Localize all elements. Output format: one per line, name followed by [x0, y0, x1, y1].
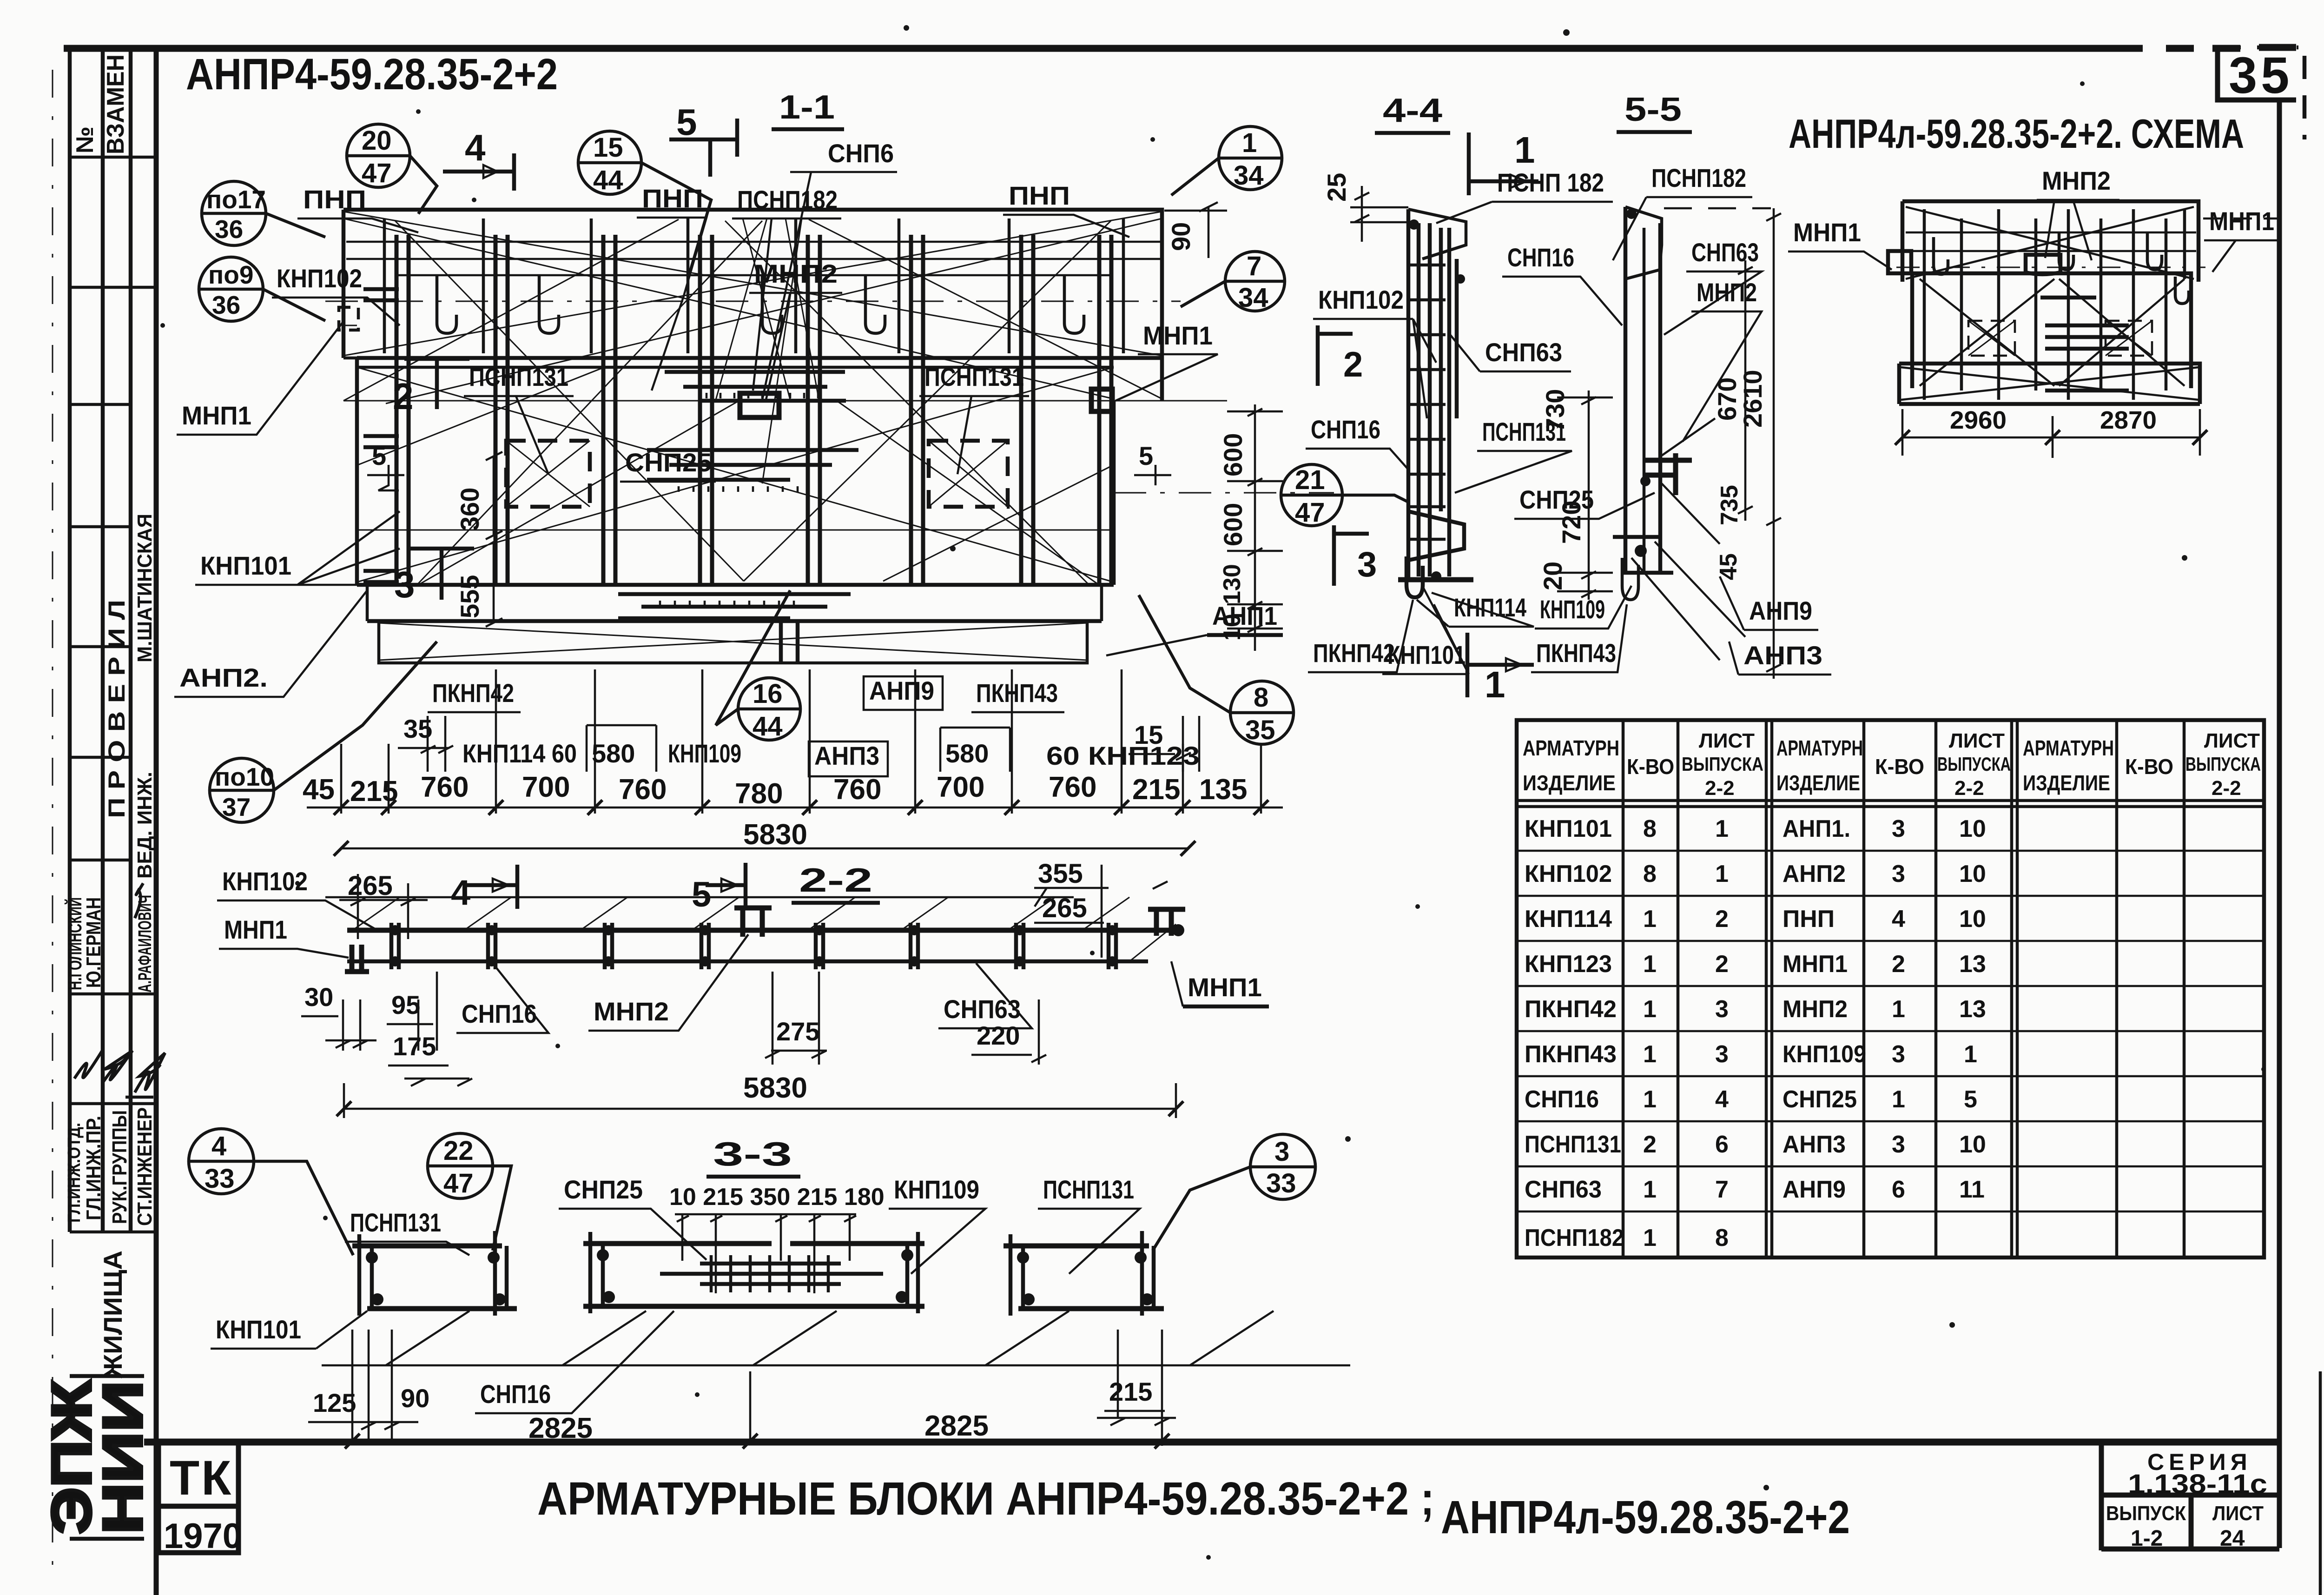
svg-text:3-3: 3-3	[713, 1136, 792, 1173]
3-3 right frame	[1004, 1231, 1164, 1316]
svg-text:П Р О В Е Р И Л: П Р О В Е Р И Л	[104, 600, 130, 818]
section mark 5 top	[669, 119, 737, 177]
svg-text:ИЗДЕЛИЕ: ИЗДЕЛИЕ	[1523, 771, 1616, 795]
svg-text:2: 2	[1892, 951, 1905, 978]
svg-text:1: 1	[1643, 906, 1657, 933]
3-3 mid frame	[583, 1232, 924, 1313]
svg-text:3: 3	[1274, 1137, 1289, 1167]
svg-text:СНП25: СНП25	[1783, 1086, 1857, 1113]
svg-text:ПНП: ПНП	[1009, 181, 1070, 210]
table data column2 qty	[1892, 815, 1905, 1203]
svg-text:2-2: 2-2	[799, 862, 872, 899]
svg-text:ПСНП182: ПСНП182	[1651, 163, 1746, 192]
svg-text:760: 760	[619, 774, 667, 806]
svg-text:А.РАФАИЛОВИЧ: А.РАФАИЛОВИЧ	[135, 895, 155, 993]
svg-text:СНП63: СНП63	[1691, 238, 1759, 267]
svg-text:3: 3	[1357, 545, 1377, 584]
svg-text:20: 20	[1538, 562, 1567, 590]
schema MNP1 plate left	[1888, 251, 1911, 273]
MNP1 end bars left at 2-2	[345, 945, 369, 972]
svg-text:АНП3: АНП3	[1783, 1131, 1846, 1158]
svg-text:КНП102: КНП102	[222, 867, 308, 896]
svg-text:2825: 2825	[924, 1410, 989, 1442]
title block left strip verticals	[70, 48, 131, 1232]
leader circle 3/33	[1153, 1134, 1315, 1251]
svg-text:МНП2: МНП2	[754, 259, 838, 288]
svg-text:МНП1: МНП1	[2209, 206, 2274, 236]
section 5-5 column	[1613, 207, 1745, 660]
svg-text:ЖИЛИЩА: ЖИЛИЩА	[98, 1251, 127, 1379]
PSNP131 dashed opening right	[929, 441, 1008, 507]
signature squiggle 1	[135, 883, 143, 918]
schema top band	[1902, 201, 2199, 282]
svg-text:АРМАТУРНЫЕ БЛОКИ АНПР4-59.28.3: АРМАТУРНЫЕ БЛОКИ АНПР4-59.28.35-2+2 ;	[537, 1473, 1434, 1525]
svg-text:11: 11	[1959, 1176, 1985, 1203]
leader circle 20/47	[347, 124, 437, 214]
svg-text:4: 4	[465, 127, 486, 168]
section 4-4 column	[1398, 209, 1473, 597]
table data column2 names	[1783, 815, 1866, 1203]
svg-text:АНП1.: АНП1.	[1783, 815, 1850, 842]
svg-text:580: 580	[945, 739, 989, 768]
svg-text:ТК: ТК	[170, 1451, 233, 1505]
svg-text:36: 36	[215, 215, 243, 244]
svg-text:КНП109: КНП109	[1540, 595, 1605, 624]
svg-text:10: 10	[1959, 906, 1986, 933]
svg-text:5: 5	[676, 101, 697, 143]
svg-text:ПНП: ПНП	[303, 185, 366, 214]
svg-text:ПНП: ПНП	[1783, 906, 1835, 933]
svg-text:1: 1	[1964, 1041, 1977, 1068]
svg-text:1: 1	[1242, 128, 1257, 158]
svg-text:1-1: 1-1	[779, 89, 835, 126]
svg-text:1: 1	[1643, 996, 1657, 1023]
MNP1 end clip right at 2-2	[1148, 909, 1185, 936]
svg-text:21: 21	[1295, 465, 1325, 495]
leader circle 7/34	[1181, 251, 1285, 311]
svg-text:135: 135	[1199, 774, 1247, 806]
svg-text:37: 37	[222, 793, 251, 821]
svg-text:35: 35	[2229, 47, 2293, 104]
svg-text:670: 670	[1712, 377, 1742, 421]
svg-text:175: 175	[393, 1032, 436, 1061]
MNP2 plate plan	[740, 393, 779, 417]
svg-text:8: 8	[1643, 860, 1657, 887]
svg-text:33: 33	[1266, 1168, 1296, 1198]
svg-text:СНП16: СНП16	[480, 1379, 551, 1409]
svg-text:КНП102: КНП102	[1318, 285, 1404, 314]
svg-text:СНП63: СНП63	[944, 994, 1021, 1024]
svg-text:МНП1: МНП1	[1793, 218, 1861, 247]
svg-text:3: 3	[1715, 1041, 1729, 1068]
svg-text:90: 90	[401, 1383, 429, 1413]
svg-text:34: 34	[1238, 283, 1268, 313]
svg-text:СНП25: СНП25	[625, 448, 712, 477]
svg-text:24: 24	[2220, 1526, 2245, 1551]
leader circle 1/34	[1171, 126, 1282, 195]
svg-text:47: 47	[1295, 497, 1325, 528]
svg-text:3: 3	[1892, 860, 1905, 887]
TK box	[158, 1443, 238, 1553]
svg-text:25: 25	[1322, 173, 1351, 202]
PSNP131 dashed opening left	[506, 441, 590, 507]
sheet bottom border	[144, 1439, 2279, 1446]
svg-text:ПКНП42: ПКНП42	[1525, 996, 1617, 1023]
svg-text:ЛИСТ: ЛИСТ	[2204, 729, 2260, 752]
svg-text:34: 34	[1234, 160, 1264, 191]
svg-text:215: 215	[1109, 1377, 1152, 1406]
svg-text:2610: 2610	[1738, 370, 1767, 428]
svg-text:4: 4	[1715, 1086, 1729, 1113]
svg-text:МНП2: МНП2	[594, 997, 669, 1026]
svg-text:КНП109: КНП109	[1783, 1041, 1866, 1068]
svg-text:4-4: 4-4	[1383, 92, 1442, 129]
svg-text:по9: по9	[208, 260, 253, 289]
svg-text:ПСНП182: ПСНП182	[1525, 1224, 1624, 1251]
svg-text:44: 44	[753, 711, 783, 741]
svg-text:600: 600	[1218, 433, 1248, 477]
svg-text:КНП109: КНП109	[894, 1175, 979, 1204]
svg-text:5: 5	[372, 441, 386, 470]
plan top band inner lines	[346, 242, 1162, 275]
svg-text:90: 90	[1166, 222, 1195, 251]
leader circle 21/47	[1281, 464, 1408, 526]
small tee center bottom	[781, 621, 798, 663]
2-2 stirrup dots	[390, 925, 1117, 966]
svg-text:1: 1	[1643, 1086, 1657, 1113]
svg-text:1: 1	[1892, 1086, 1905, 1113]
svg-text:МНП2: МНП2	[1783, 996, 1848, 1023]
svg-text:ПСНП131: ПСНП131	[1043, 1175, 1134, 1204]
svg-text:45: 45	[303, 774, 335, 806]
band leader crisscross	[716, 218, 818, 483]
svg-text:МНП2: МНП2	[2042, 166, 2111, 195]
svg-text:СНП63: СНП63	[1485, 338, 1562, 367]
svg-text:ПКНП42: ПКНП42	[1313, 638, 1395, 668]
svg-text:ИЗДЕЛИЕ: ИЗДЕЛИЕ	[1776, 771, 1860, 795]
leader circle po9/36	[199, 257, 325, 321]
leader circle 22/47	[428, 1133, 511, 1251]
mesh cluster mid dots	[679, 486, 798, 492]
under-plan extension lines	[341, 669, 1261, 814]
svg-text:К-ВО: К-ВО	[2125, 754, 2173, 779]
svg-text:2-2: 2-2	[1954, 777, 1984, 800]
svg-text:13: 13	[1959, 951, 1986, 978]
schema body	[1912, 273, 2191, 388]
signature squiggle 2	[74, 1051, 132, 1083]
svg-text:1: 1	[1643, 1041, 1657, 1068]
svg-text:125: 125	[313, 1388, 356, 1417]
svg-text:760: 760	[421, 771, 469, 803]
svg-text:1970: 1970	[164, 1516, 242, 1556]
svg-text:220: 220	[977, 1021, 1020, 1050]
plan skirt	[367, 585, 1102, 663]
2-2 hatched band top line	[325, 896, 1074, 899]
svg-text:215: 215	[350, 775, 398, 807]
opening crosses	[506, 441, 1008, 507]
MNP2 center clip at 2-2	[734, 908, 772, 937]
svg-text:АНП2.: АНП2.	[179, 663, 268, 692]
table verticals	[1623, 720, 2184, 1257]
svg-text:8: 8	[1254, 682, 1268, 713]
3-3 left frame	[352, 1231, 517, 1316]
svg-text:1: 1	[1643, 951, 1657, 978]
svg-text:5830: 5830	[743, 819, 807, 851]
signature squiggle 3	[125, 1053, 165, 1097]
svg-text:КНП101: КНП101	[200, 551, 291, 580]
table data column1 qty	[1643, 815, 1657, 1251]
svg-text:ПСНП 182: ПСНП 182	[1497, 168, 1604, 197]
2-2 stirrup clips	[391, 923, 1116, 969]
title block left strip row lines	[70, 157, 156, 1232]
2-2 panel heavy lines	[347, 928, 1176, 933]
svg-text:47: 47	[443, 1168, 474, 1198]
plan top band dash axis	[325, 301, 1181, 302]
svg-text:355: 355	[1038, 859, 1083, 889]
schema hooks	[1934, 232, 2189, 304]
extra band bar strokes	[384, 218, 1123, 353]
svg-text:1.138-11с: 1.138-11с	[2128, 1469, 2267, 1499]
svg-text:4: 4	[1892, 906, 1905, 933]
dim 2610 at 5-5	[1664, 207, 1771, 210]
svg-text:СНП63: СНП63	[1525, 1176, 1602, 1203]
table data column2 list	[1959, 815, 1986, 1203]
mesh cluster bottom dots	[660, 601, 794, 606]
svg-text:555: 555	[455, 575, 484, 618]
svg-text:3: 3	[1892, 1131, 1905, 1158]
mesh cluster top	[665, 372, 846, 401]
svg-text:1: 1	[1514, 129, 1535, 171]
svg-text:4: 4	[451, 873, 470, 913]
svg-text:1: 1	[1643, 1224, 1657, 1251]
svg-text:ВЫПУСКА: ВЫПУСКА	[1937, 753, 2011, 775]
svg-text:730: 730	[1540, 389, 1570, 432]
dim chain line under plan	[307, 807, 1283, 809]
svg-text:360: 360	[455, 488, 484, 531]
leader circle 4/33	[189, 1129, 353, 1255]
plan long thin lines	[343, 325, 1227, 530]
2-2 hatch diagonals	[353, 897, 1176, 961]
svg-text:К-ВО: К-ВО	[1627, 754, 1674, 779]
svg-text:МНП1: МНП1	[1188, 973, 1262, 1002]
svg-text:ЛИСТ: ЛИСТ	[1949, 729, 2005, 752]
svg-text:15: 15	[593, 132, 623, 163]
svg-text:22: 22	[443, 1136, 474, 1166]
plan top band rect	[343, 210, 1162, 401]
svg-text:ВЗАМЕН: ВЗАМЕН	[102, 54, 129, 154]
dash axis right	[1114, 492, 1334, 494]
svg-text:КНП101: КНП101	[1525, 815, 1612, 842]
svg-text:60 КНП123: 60 КНП123	[1046, 741, 1200, 770]
svg-text:760: 760	[833, 774, 881, 806]
svg-text:КНП114 60: КНП114 60	[462, 739, 577, 768]
svg-text:2: 2	[1715, 951, 1729, 978]
svg-text:2: 2	[1343, 345, 1363, 384]
svg-text:АРМАТУРН: АРМАТУРН	[1776, 736, 1863, 760]
svg-text:10: 10	[1959, 860, 1986, 887]
svg-text:ВЫПУСКА: ВЫПУСКА	[2185, 753, 2261, 775]
svg-text:2: 2	[1715, 906, 1729, 933]
svg-text:7: 7	[1715, 1176, 1729, 1203]
svg-text:580: 580	[592, 739, 635, 768]
svg-text:ЛИСТ: ЛИСТ	[2212, 1502, 2264, 1525]
svg-text:6: 6	[1715, 1131, 1729, 1158]
parts table frame	[1517, 720, 2264, 1257]
scan edge artifact right	[2320, 0, 2324, 1595]
svg-text:45: 45	[1715, 553, 1742, 580]
svg-text:7: 7	[1247, 251, 1261, 281]
svg-text:КНП102: КНП102	[277, 264, 362, 293]
svg-text:АНП9: АНП9	[1783, 1176, 1846, 1203]
svg-text:5: 5	[692, 875, 711, 914]
svg-text:2825: 2825	[528, 1412, 593, 1444]
schema skirt	[1899, 364, 2200, 404]
svg-text:13: 13	[1959, 996, 1986, 1023]
svg-text:700: 700	[937, 771, 984, 803]
svg-text:2960: 2960	[1950, 406, 2007, 434]
svg-text:АРМАТУРН: АРМАТУРН	[2023, 736, 2114, 760]
svg-text:АРМАТУРН: АРМАТУРН	[1523, 736, 1619, 760]
svg-text:3: 3	[1892, 1041, 1905, 1068]
svg-text:МНП1: МНП1	[1783, 951, 1848, 978]
leader circle 8/35	[1139, 595, 1294, 744]
svg-text:5: 5	[1964, 1086, 1977, 1113]
svg-text:КНП114: КНП114	[1454, 593, 1526, 622]
table data column1 names	[1525, 815, 1624, 1251]
svg-text:ЭПЖ: ЭПЖ	[40, 1380, 103, 1534]
svg-text:5830: 5830	[743, 1072, 807, 1104]
svg-text:СНП16: СНП16	[1507, 243, 1574, 272]
svg-text:47: 47	[362, 158, 392, 188]
svg-text:ПСНП131: ПСНП131	[1525, 1131, 1621, 1158]
svg-text:1: 1	[1485, 664, 1505, 705]
svg-text:700: 700	[522, 771, 570, 803]
svg-text:6: 6	[1892, 1176, 1905, 1203]
svg-text:АНП9: АНП9	[1749, 596, 1812, 625]
svg-text:8: 8	[1643, 815, 1657, 842]
sheet right border	[2277, 100, 2282, 1548]
svg-text:ИЗДЕЛИЕ: ИЗДЕЛИЕ	[2023, 771, 2110, 795]
mesh cluster bottom	[618, 594, 851, 618]
svg-text:СНП6: СНП6	[828, 139, 894, 168]
table header bottom double line	[1517, 801, 2264, 807]
plan body rect	[357, 358, 1162, 585]
svg-text:ПКНП43: ПКНП43	[1536, 638, 1616, 668]
leader circle 16/44	[716, 590, 800, 740]
corner block SERIYA	[2101, 1442, 2279, 1550]
sheet top border	[64, 47, 2296, 48]
svg-text:КНП123: КНП123	[1525, 951, 1612, 978]
svg-text:1: 1	[1715, 860, 1729, 887]
svg-text:РУК.ГРУППЫ: РУК.ГРУППЫ	[108, 1110, 131, 1224]
3-3 mid ladder	[700, 1264, 841, 1284]
svg-text:Ю.ГЕРМАН: Ю.ГЕРМАН	[82, 897, 105, 988]
svg-text:СНП25: СНП25	[564, 1175, 643, 1204]
schema verticals	[1924, 209, 2185, 400]
svg-text:АНП3: АНП3	[814, 741, 879, 770]
svg-text:2: 2	[393, 376, 414, 417]
stirrup top hooks	[437, 274, 1084, 333]
svg-text:МНП1: МНП1	[224, 915, 287, 944]
svg-text:215: 215	[1132, 774, 1180, 806]
svg-text:по17: по17	[206, 185, 266, 214]
svg-text:4: 4	[211, 1131, 226, 1161]
mesh cluster mid	[647, 450, 858, 480]
svg-text:СТ.ИНЖЕНЕР: СТ.ИНЖЕНЕР	[133, 1107, 156, 1226]
svg-text:КНП102: КНП102	[1525, 860, 1612, 887]
leader circle 15/44	[578, 131, 711, 279]
svg-text:36: 36	[212, 291, 240, 319]
svg-text:33: 33	[205, 1164, 235, 1194]
svg-text:35: 35	[1245, 715, 1275, 745]
leader circle po17/36	[202, 181, 325, 245]
3-3 long leader line	[322, 1311, 1350, 1365]
page number box 35	[2218, 47, 2296, 100]
table data column1 list	[1715, 815, 1729, 1251]
svg-text:2-2: 2-2	[1705, 777, 1735, 800]
svg-text:КНП109: КНП109	[668, 739, 741, 768]
svg-text:СНП16: СНП16	[1311, 415, 1380, 444]
svg-text:по10: по10	[215, 762, 274, 791]
svg-text:АНП2: АНП2	[1783, 860, 1846, 887]
svg-text:МНП1: МНП1	[182, 401, 251, 430]
svg-text:МНП1: МНП1	[1143, 321, 1213, 350]
svg-text:10: 10	[1219, 614, 1246, 641]
plan vertical stirrup bars	[396, 235, 1111, 583]
svg-text:130: 130	[1219, 564, 1246, 604]
svg-text:735: 735	[1716, 485, 1743, 525]
svg-text:1: 1	[1643, 1176, 1657, 1203]
svg-text:№: №	[72, 126, 99, 153]
section mark 2 left	[404, 359, 469, 409]
svg-text:К-ВО: К-ВО	[1875, 754, 1924, 779]
svg-text:16: 16	[753, 679, 783, 709]
svg-text:АНПР4л-59.28.35-2+2: АНПР4л-59.28.35-2+2	[1441, 1491, 1850, 1543]
svg-text:ГЛ.ИНЖ.ОТД.: ГЛ.ИНЖ.ОТД.	[65, 1123, 84, 1223]
svg-text:ПКНП43: ПКНП43	[976, 678, 1058, 708]
svg-text:ПКНП43: ПКНП43	[1525, 1041, 1617, 1068]
schema MNP2 plate	[2026, 255, 2060, 274]
svg-text:ВЫПУСКА: ВЫПУСКА	[1682, 753, 1763, 775]
svg-text:1: 1	[1892, 996, 1905, 1023]
svg-text:3: 3	[1715, 996, 1729, 1023]
svg-text:ПСНП131: ПСНП131	[924, 362, 1024, 391]
svg-text:АНП9: АНП9	[869, 676, 934, 705]
plan body bottom lines	[357, 585, 1114, 621]
svg-text:10: 10	[1959, 1131, 1986, 1158]
schema X braces	[1901, 207, 2199, 400]
svg-text:2-2: 2-2	[2212, 777, 2241, 800]
svg-text:20: 20	[362, 126, 392, 156]
svg-text:10 215 350 215 180: 10 215 350 215 180	[669, 1184, 885, 1211]
svg-text:5-5: 5-5	[1624, 91, 1682, 128]
svg-text:ВЕД. ИНЖ.: ВЕД. ИНЖ.	[133, 772, 156, 879]
svg-text:ПСНП131: ПСНП131	[350, 1208, 441, 1237]
svg-text:30: 30	[304, 982, 333, 1012]
svg-text:МНП2: МНП2	[1697, 278, 1757, 307]
right plate plan	[1091, 389, 1112, 411]
dashed plate left	[339, 307, 358, 330]
svg-text:44: 44	[593, 165, 623, 195]
svg-text:2: 2	[1643, 1131, 1657, 1158]
svg-text:АНП3: АНП3	[1743, 641, 1822, 670]
svg-text:8: 8	[1715, 1224, 1729, 1251]
svg-text:275: 275	[776, 1017, 819, 1046]
svg-text:2870: 2870	[2100, 406, 2157, 434]
svg-text:ПКНП42: ПКНП42	[432, 678, 514, 708]
section mark 4 top	[443, 153, 514, 191]
svg-text:ПСНП182: ПСНП182	[737, 185, 838, 214]
